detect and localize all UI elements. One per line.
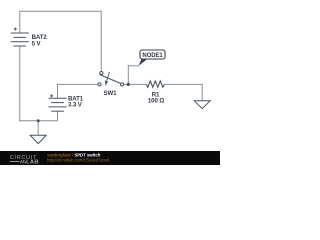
svg-text:3.3 V: 3.3 V (68, 101, 83, 108)
svg-text:NODE1: NODE1 (142, 53, 163, 59)
svg-text:LAB: LAB (26, 160, 39, 166)
svg-text:100 Ω: 100 Ω (148, 98, 164, 105)
svg-text:http://circuitlab.com/c/5e3ed7: http://circuitlab.com/c/5e3ed7scw6 (47, 158, 110, 163)
svg-text:5 V: 5 V (32, 41, 42, 48)
svg-text:SW1: SW1 (104, 90, 118, 97)
